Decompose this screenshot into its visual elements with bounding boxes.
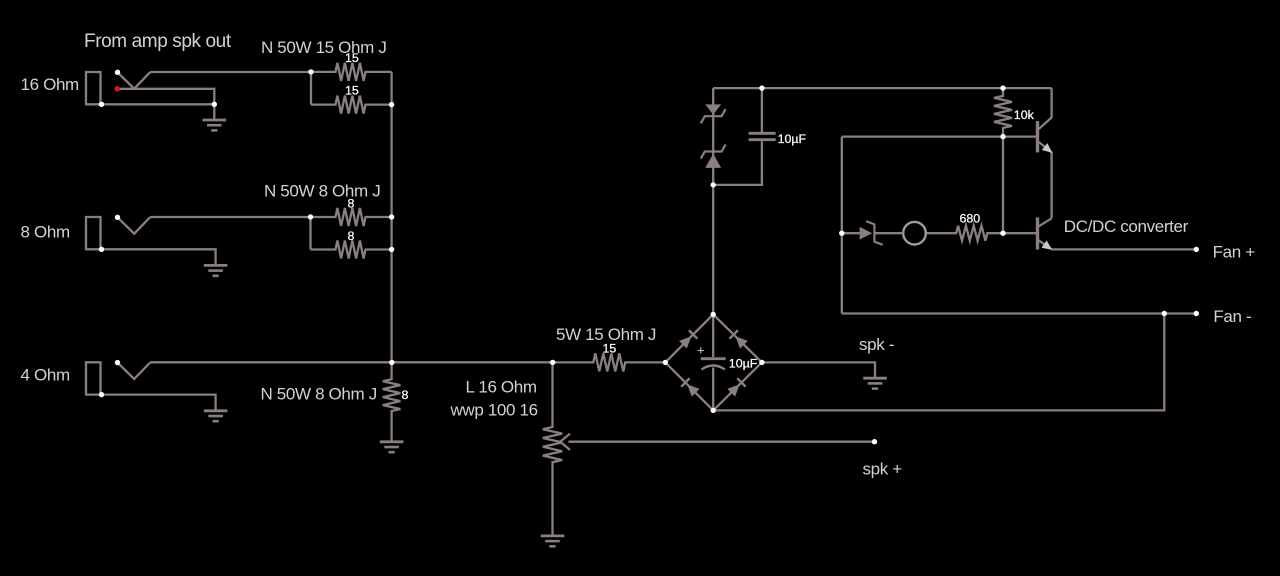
svg-text:10µF: 10µF bbox=[729, 356, 758, 370]
ground G2 bbox=[204, 265, 228, 275]
label: 8 (top) bbox=[348, 197, 355, 211]
label: 15 (5W) bbox=[603, 342, 617, 356]
label: spk + bbox=[863, 459, 903, 478]
label: 16 Ohm bbox=[21, 75, 80, 94]
svg-text:8 Ohm: 8 Ohm bbox=[21, 222, 70, 241]
label: + (C1 polarity) bbox=[697, 343, 705, 358]
svg-text:DC/DC converter: DC/DC converter bbox=[1064, 217, 1189, 236]
svg-text:spk +: spk + bbox=[863, 459, 903, 478]
svg-text:N 50W 8 Ohm J: N 50W 8 Ohm J bbox=[261, 385, 377, 404]
wire bridge bottom bus to Fan - riser bbox=[713, 314, 1164, 411]
node zener bottom junction bbox=[711, 182, 716, 187]
node 8||8 right bottom bbox=[389, 247, 394, 252]
node 10k bottom / base bus bbox=[1000, 134, 1005, 139]
node bridge top bbox=[711, 312, 716, 317]
transistor Q2 bbox=[1038, 217, 1055, 253]
inductor L 16 Ohm (tapped) bbox=[543, 362, 562, 535]
svg-text:15: 15 bbox=[603, 342, 617, 356]
wire zener chain vertical bbox=[712, 88, 714, 314]
label: N 50W 8 Ohm J (second) bbox=[261, 385, 377, 404]
wire J1 tip line bbox=[117, 89, 214, 105]
wire main bus vertical bbox=[390, 72, 392, 363]
svg-text:16 Ohm: 16 Ohm bbox=[21, 75, 80, 94]
transistor Q1 bbox=[1038, 88, 1056, 218]
wire J2 to R network bbox=[150, 216, 310, 218]
node Fan + terminal bbox=[1194, 247, 1199, 252]
ground G4 bbox=[380, 442, 404, 452]
jack J3 4 Ohm body bbox=[86, 362, 101, 394]
label: 15 (top) bbox=[345, 51, 359, 65]
node J2 sleeve bbox=[99, 247, 104, 252]
svg-text:N 50W 15 Ohm J: N 50W 15 Ohm J bbox=[261, 38, 386, 57]
jack J2 8 Ohm body bbox=[86, 217, 101, 249]
bridge diode D2 (right to top) bbox=[729, 330, 748, 349]
label: wwp 100 16 bbox=[450, 401, 538, 420]
svg-text:10µF: 10µF bbox=[778, 132, 807, 146]
ground G6 bbox=[863, 378, 887, 388]
capacitor C1 10uF inside bridge bbox=[701, 315, 726, 410]
node J1 ground junction bbox=[212, 102, 217, 107]
label: Fan + bbox=[1213, 243, 1256, 262]
wire left vertical (fan minus leg) bbox=[841, 137, 843, 314]
svg-text:+: + bbox=[697, 343, 705, 358]
bridge diode D4 (bottom to right) bbox=[727, 378, 746, 397]
node J2 switch contact bbox=[115, 215, 120, 220]
capacitor C2 10uF bbox=[749, 88, 776, 140]
label: 8 (bottom) bbox=[348, 229, 355, 243]
svg-text:L 16 Ohm: L 16 Ohm bbox=[466, 377, 537, 396]
resistor R8 680 bbox=[926, 226, 1003, 241]
node mid junction bbox=[550, 360, 555, 365]
resistor R6 15 bbox=[553, 353, 666, 371]
jack J1 16 Ohm body bbox=[86, 72, 101, 104]
zener Z1 bbox=[705, 104, 721, 114]
bridge diode D1 (left to top) bbox=[679, 330, 698, 349]
label: From amp spk out bbox=[84, 31, 232, 52]
label: 8 Ohm bbox=[21, 222, 70, 241]
node Fan - terminal bbox=[1194, 311, 1199, 316]
wire Q2 base bbox=[1003, 232, 1036, 234]
svg-text:8: 8 bbox=[402, 388, 409, 402]
zener Z2 bbox=[705, 154, 721, 168]
svg-text:4 Ohm: 4 Ohm bbox=[21, 366, 70, 385]
resistor R1 15 bbox=[311, 63, 392, 81]
label: 4 Ohm bbox=[21, 366, 70, 385]
ground G5 bbox=[541, 536, 565, 546]
lamp/indicator circle bbox=[903, 222, 926, 245]
jack J1 tip lever bbox=[118, 72, 151, 89]
node 8||8 left bbox=[308, 214, 313, 219]
svg-text:wwp 100 16: wwp 100 16 bbox=[450, 401, 538, 420]
node bridge right bbox=[759, 360, 764, 365]
node spk + terminal bbox=[872, 439, 877, 444]
wire J3 to mid junction bbox=[150, 361, 553, 363]
node J1 tip (red) bbox=[114, 86, 120, 92]
svg-text:10k: 10k bbox=[1014, 108, 1035, 122]
zener Z3 horizontal bbox=[842, 221, 903, 245]
label: 10uF (C1) bbox=[729, 356, 758, 370]
node J1 sleeve bbox=[99, 102, 104, 107]
ground G1 bbox=[203, 104, 227, 130]
label: N 50W 15 Ohm J bbox=[261, 38, 386, 57]
bridge rectifier diamond bbox=[665, 314, 762, 410]
node bridge left bbox=[663, 360, 668, 365]
node top bus / C2 bbox=[759, 85, 764, 90]
node 8||8 right top bbox=[389, 214, 394, 219]
node Q2 base junction bbox=[1000, 231, 1005, 236]
wire 10k junction to Q2 base bbox=[1002, 137, 1004, 234]
label: 15 (bottom) bbox=[345, 84, 359, 98]
wire zener junction to C2 branch bbox=[713, 141, 762, 185]
bridge diode D3 (bottom to left) bbox=[681, 378, 700, 397]
label: L 16 Ohm bbox=[466, 377, 537, 396]
label: 5W 15 Ohm J bbox=[556, 325, 656, 344]
resistor R3 8 bbox=[311, 208, 392, 226]
node J3 switch contact bbox=[115, 360, 120, 365]
wire Q2 emitter to Fan + bbox=[1052, 248, 1197, 250]
svg-text:N 50W 8 Ohm J: N 50W 8 Ohm J bbox=[264, 182, 380, 201]
svg-text:From amp spk out: From amp spk out bbox=[84, 31, 232, 52]
wire left branch of 15||15 bbox=[310, 72, 312, 105]
label: 8 (vertical resistor) bbox=[402, 388, 409, 402]
node bus / J3 wire bbox=[389, 360, 394, 365]
node top bus / 10k bbox=[1000, 85, 1005, 90]
label: 680 bbox=[960, 212, 981, 226]
resistor R2 15 bbox=[311, 96, 392, 114]
label: 10uF (C2) bbox=[778, 132, 807, 146]
node left vertical / zener bbox=[839, 231, 844, 236]
resistor R7 10k vertical bbox=[994, 88, 1012, 137]
wire top bus bbox=[713, 87, 1051, 89]
label: DC/DC converter bbox=[1064, 217, 1189, 236]
node J1 switch contact bbox=[115, 70, 120, 75]
svg-text:680: 680 bbox=[960, 212, 981, 226]
jack J2 sleeve wire bbox=[85, 249, 216, 265]
ground G3 bbox=[204, 411, 228, 421]
resistor R4 8 bbox=[311, 241, 392, 259]
label: 10k bbox=[1014, 108, 1035, 122]
node 15||15 left bbox=[308, 69, 313, 74]
jack J3 sleeve wire bbox=[85, 395, 216, 411]
label: N 50W 8 Ohm J bbox=[264, 182, 380, 201]
svg-text:spk -: spk - bbox=[859, 335, 894, 354]
label: spk - bbox=[859, 335, 894, 354]
node J3 sleeve bbox=[99, 392, 104, 397]
jack J2 tip lever bbox=[118, 217, 151, 234]
label: Fan - bbox=[1213, 307, 1251, 326]
wire spk - from bridge right bbox=[762, 362, 875, 377]
jack J3 tip lever bbox=[118, 363, 151, 380]
svg-text:Fan +: Fan + bbox=[1213, 243, 1256, 262]
wiper arrow of L bbox=[560, 434, 570, 450]
wire Fan - bus bbox=[842, 312, 1197, 314]
node Fan - riser junction bbox=[1162, 311, 1167, 316]
node 15||15 right bbox=[389, 102, 394, 107]
wire Q1 base bus bbox=[842, 135, 1036, 137]
node bridge bottom bbox=[711, 408, 716, 413]
wire left branch of 8||8 bbox=[309, 217, 311, 250]
svg-text:Fan -: Fan - bbox=[1213, 307, 1251, 326]
resistor R5 8 vertical bbox=[383, 363, 401, 442]
jack J1 sleeve wire bbox=[85, 103, 214, 105]
wire J1 to R network bbox=[150, 71, 311, 73]
wire tap to spk + bbox=[569, 441, 875, 443]
